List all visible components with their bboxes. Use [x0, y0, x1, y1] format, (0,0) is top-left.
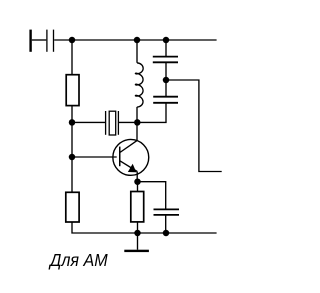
node C junction [134, 119, 141, 126]
transistor VT1 [113, 139, 149, 182]
wire collector [136, 122, 138, 140]
wire crystal to node C [118, 121, 137, 123]
wire emitter node to R3 [137, 182, 139, 192]
input terminal plate [29, 30, 31, 52]
wire top rail [72, 39, 217, 41]
node I junction (between C2 and C3) [163, 77, 170, 84]
resistor R2 [66, 192, 79, 222]
wire terminal to C1 [32, 39, 47, 41]
wire L1 to node C [136, 107, 138, 123]
wire C2 to node I [165, 62, 167, 80]
resistor R3 [131, 192, 144, 222]
node G junction (ground rail / C4) [163, 230, 170, 237]
capacitor C2 [153, 57, 178, 63]
wire node B to crystal [72, 121, 106, 123]
wire C1 to node A [54, 39, 72, 41]
node A junction [69, 37, 76, 44]
wire R2 bottom to ground rail corner [72, 222, 217, 233]
node B junction [69, 119, 76, 126]
node F junction (ground rail / R3) [134, 230, 141, 237]
inductor L1 [135, 63, 143, 107]
node E junction (emitter) [134, 178, 141, 185]
capacitor C1 [47, 30, 54, 52]
wire output tap [166, 80, 222, 172]
wire C3 top [165, 80, 167, 97]
resistor R1 [66, 75, 79, 106]
crystal ZQ1 [106, 111, 119, 135]
wire C3 bottom to node C [137, 103, 166, 123]
node L1 top junction [134, 37, 141, 44]
wire node A to R1 [71, 40, 73, 75]
ground [124, 233, 149, 252]
wire emitter node to C4 [138, 182, 166, 210]
wire rail to L1 [136, 40, 138, 63]
capacitor C4 [154, 209, 180, 215]
node D junction (base rail) [69, 154, 76, 161]
wire R3 to ground rail [137, 222, 139, 233]
node H junction (rail / C2) [163, 37, 170, 44]
wire rail to C2 [165, 40, 167, 57]
wire C4 to ground rail [165, 215, 167, 233]
wire R1 to node B and down to R2 [71, 106, 73, 193]
capacitor C3 [153, 97, 178, 103]
caption text [50, 250, 108, 271]
wire base lead [72, 156, 117, 158]
